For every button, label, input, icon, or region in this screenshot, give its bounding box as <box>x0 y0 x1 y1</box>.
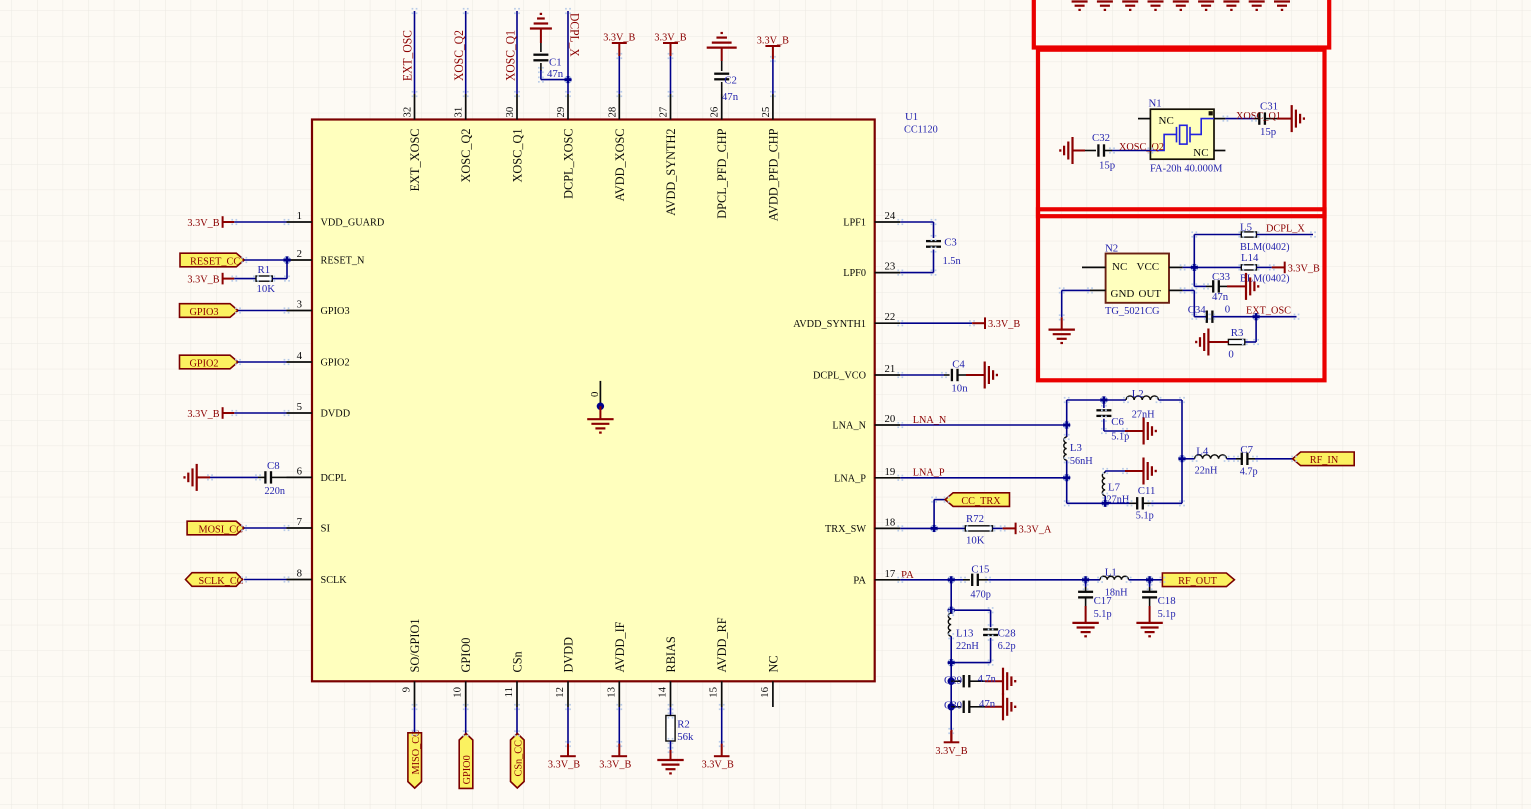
svg-text:AVDD_PFD_CHP: AVDD_PFD_CHP <box>766 128 780 221</box>
svg-text:3.3V_A: 3.3V_A <box>1019 523 1052 535</box>
pin 29 DCPL_XOSC <box>567 94 569 120</box>
svg-text:470p: 470p <box>970 588 991 600</box>
wire <box>1227 458 1236 460</box>
pin 31 XOSC_Q2 <box>465 94 467 120</box>
svg-text:15: 15 <box>708 687 720 698</box>
ground (C1) <box>530 14 552 29</box>
wire LNA_P <box>900 477 1066 479</box>
wire <box>1104 430 1125 432</box>
svg-text:3.3V_B: 3.3V_B <box>599 759 631 771</box>
svg-text:5.1p: 5.1p <box>1136 510 1154 522</box>
capacitor C29 <box>964 675 970 687</box>
wire <box>1149 606 1151 623</box>
port RESET_CC <box>180 253 244 267</box>
svg-text:30: 30 <box>504 107 516 118</box>
ground (C6) <box>1144 418 1156 445</box>
svg-text:GPIO0: GPIO0 <box>461 755 473 784</box>
port GPIO2 <box>180 355 239 369</box>
wire <box>951 609 990 611</box>
pin 3 GPIO3 <box>287 310 313 312</box>
svg-text:C7: C7 <box>1240 444 1253 456</box>
wire <box>1104 471 1106 473</box>
wire <box>985 706 1003 708</box>
svg-text:C33: C33 <box>1212 271 1230 283</box>
svg-text:GPIO2: GPIO2 <box>189 357 218 369</box>
svg-text:C8: C8 <box>267 460 280 472</box>
ground (R2) <box>657 760 683 773</box>
pin 6 DCPL <box>287 476 313 478</box>
wire <box>990 610 992 627</box>
pin stub NC bottom-right <box>1214 150 1225 152</box>
wire <box>670 741 672 750</box>
capacitor C1 <box>533 55 548 61</box>
wire <box>540 29 542 44</box>
wire <box>1125 430 1144 432</box>
svg-text:GPIO0: GPIO0 <box>459 638 473 673</box>
wire <box>1225 118 1254 120</box>
pin stub GND <box>1090 289 1106 291</box>
wire <box>1149 598 1151 606</box>
svg-text:25: 25 <box>760 107 772 118</box>
svg-text:DPCL_PFD_CHP: DPCL_PFD_CHP <box>715 128 729 218</box>
svg-text:3: 3 <box>297 299 302 311</box>
power 3.3V_B <box>714 744 730 757</box>
red highlight box 3 (TCXO N2 circuit) <box>1038 209 1325 380</box>
svg-text:DCPL_X: DCPL_X <box>567 13 581 57</box>
power 3.3V_B <box>223 216 235 228</box>
pin 14 RBIAS <box>670 681 672 707</box>
svg-text:TG_5021CG: TG_5021CG <box>1105 305 1160 317</box>
svg-text:BLM(0402): BLM(0402) <box>1240 241 1290 253</box>
wire <box>540 63 542 71</box>
svg-text:CSn_CC: CSn_CC <box>513 740 525 777</box>
capacitor C8 <box>265 471 271 483</box>
junction <box>948 678 955 685</box>
ground (top row) <box>1173 2 1189 10</box>
port MOSI_CC <box>187 521 244 535</box>
wire <box>951 706 961 708</box>
wire <box>567 707 569 744</box>
svg-text:XOSC_Q1: XOSC_Q1 <box>511 129 525 183</box>
svg-text:VDD_GUARD: VDD_GUARD <box>321 217 385 229</box>
power 3.3V_B <box>663 43 678 56</box>
svg-text:4.7p: 4.7p <box>1240 465 1258 477</box>
wire <box>1194 316 1207 318</box>
junction <box>1191 264 1198 271</box>
svg-text:L7: L7 <box>1108 481 1121 493</box>
svg-text:L4: L4 <box>1196 446 1209 458</box>
svg-text:RBIAS: RBIAS <box>664 636 678 672</box>
svg-text:6.2p: 6.2p <box>998 640 1016 652</box>
svg-text:RESET_CC: RESET_CC <box>190 256 240 268</box>
capacitor C18 <box>1142 592 1157 598</box>
capacitor C31 <box>1259 112 1265 124</box>
capacitor C11 <box>1137 497 1143 509</box>
svg-text:14: 14 <box>657 686 669 697</box>
svg-text:GPIO3: GPIO3 <box>321 305 350 317</box>
wire <box>1104 150 1112 152</box>
wire <box>1066 400 1068 437</box>
svg-text:24: 24 <box>885 210 896 222</box>
wire <box>1255 458 1294 460</box>
power 3.3V_B <box>223 407 235 419</box>
wire <box>197 476 210 478</box>
port MISO_CC <box>408 733 422 788</box>
wire <box>1125 470 1144 472</box>
junction <box>1178 455 1185 462</box>
svg-text:R2: R2 <box>677 718 690 730</box>
svg-text:SO/GPIO1: SO/GPIO1 <box>408 619 422 673</box>
svg-text:RF_OUT: RF_OUT <box>1178 575 1217 587</box>
wire <box>1061 317 1063 329</box>
capacitor C7 <box>1242 453 1248 465</box>
ground (L7) <box>1144 458 1156 485</box>
ground (C29) <box>1003 668 1015 695</box>
ground (N2) <box>1049 330 1075 343</box>
svg-text:C18: C18 <box>1158 595 1176 607</box>
crystal N1 body <box>1150 109 1214 159</box>
svg-text:R3: R3 <box>1231 327 1244 339</box>
capacitor C3 <box>926 241 941 247</box>
pin stub XOSC_Q1 <box>1214 118 1225 120</box>
svg-text:10n: 10n <box>951 382 968 394</box>
wire <box>1212 316 1296 318</box>
svg-text:LNA_P: LNA_P <box>834 472 866 484</box>
inductor L13 <box>948 613 951 636</box>
wire <box>286 260 288 279</box>
wire <box>670 56 672 94</box>
ground (C18) <box>1136 623 1162 636</box>
pin 10 GPIO0 <box>465 681 467 707</box>
wire <box>1151 502 1183 504</box>
svg-text:220n: 220n <box>265 485 286 497</box>
wire <box>258 476 266 478</box>
svg-text:11: 11 <box>503 687 515 697</box>
svg-text:21: 21 <box>885 363 896 375</box>
svg-text:4: 4 <box>297 350 303 362</box>
wire <box>1105 470 1125 472</box>
svg-text:XOSC_Q2: XOSC_Q2 <box>452 30 466 81</box>
svg-text:MISO_CC: MISO_CC <box>410 730 422 775</box>
inductor L1 <box>1100 576 1128 580</box>
wire <box>414 11 416 94</box>
wire <box>1129 579 1163 581</box>
svg-text:L13: L13 <box>956 627 973 639</box>
svg-text:3.3V_B: 3.3V_B <box>935 745 967 757</box>
wire <box>978 579 988 581</box>
wire <box>721 82 723 94</box>
svg-text:R72: R72 <box>966 513 984 525</box>
capacitor C32 <box>1098 144 1104 156</box>
svg-text:DVDD: DVDD <box>321 408 351 420</box>
wire <box>969 706 985 708</box>
power 3.3V_B <box>560 744 576 757</box>
svg-text:L14: L14 <box>1241 252 1259 264</box>
inductor L4 <box>1195 455 1227 459</box>
wire <box>1257 234 1314 236</box>
svg-text:6: 6 <box>297 465 303 477</box>
junction <box>1100 396 1107 403</box>
svg-text:47n: 47n <box>1212 291 1229 303</box>
svg-text:C17: C17 <box>1094 595 1113 607</box>
wire <box>1067 502 1130 504</box>
svg-text:RESET_N: RESET_N <box>321 255 365 267</box>
wire <box>993 527 1003 529</box>
wire <box>541 79 568 81</box>
svg-text:RF_IN: RF_IN <box>1310 454 1339 466</box>
svg-text:CC1120: CC1120 <box>904 124 938 136</box>
wire <box>1194 234 1241 236</box>
svg-text:1: 1 <box>297 210 302 222</box>
svg-text:5.1p: 5.1p <box>1158 608 1176 620</box>
wire <box>1085 580 1087 587</box>
wire <box>969 680 985 682</box>
port SCLK_CC <box>186 573 243 587</box>
wire <box>670 707 672 716</box>
junction <box>1063 421 1070 428</box>
svg-text:N1: N1 <box>1149 97 1162 109</box>
resistor R1 <box>256 276 272 281</box>
ground (top row) <box>1223 2 1239 10</box>
svg-text:17: 17 <box>885 568 896 580</box>
svg-text:22nH: 22nH <box>956 640 979 652</box>
pin 11 CSn <box>516 681 518 707</box>
wire <box>1227 285 1246 287</box>
svg-text:C4: C4 <box>952 358 965 370</box>
svg-text:3.3V_B: 3.3V_B <box>654 32 686 44</box>
svg-text:AVDD_XOSC: AVDD_XOSC <box>613 129 627 202</box>
wire <box>933 222 935 238</box>
port GPIO3 <box>180 304 239 318</box>
capacitor C30 <box>964 701 970 713</box>
svg-text:SI: SI <box>321 523 331 535</box>
svg-text:3.3V_B: 3.3V_B <box>1288 262 1320 274</box>
wire <box>1257 266 1272 268</box>
svg-text:47n: 47n <box>722 91 739 103</box>
svg-text:PA: PA <box>853 574 866 586</box>
wire <box>933 250 935 273</box>
svg-text:16: 16 <box>759 686 771 697</box>
pin 9 SO/GPIO1 <box>414 681 416 707</box>
wire <box>238 361 287 363</box>
pin stub NC top-left <box>1138 118 1150 120</box>
wire <box>210 476 258 478</box>
wire <box>1181 400 1183 503</box>
svg-text:LNA_P: LNA_P <box>913 467 945 479</box>
wire <box>990 638 992 663</box>
wire <box>1159 399 1183 401</box>
wire <box>934 499 947 501</box>
svg-text:DVDD: DVDD <box>562 637 576 673</box>
svg-text:L2: L2 <box>1132 388 1144 400</box>
pin 13 AVDD_IF <box>618 681 620 707</box>
svg-text:OUT: OUT <box>1139 288 1162 300</box>
wire <box>234 412 286 414</box>
pin 7 SI <box>287 527 313 529</box>
wire <box>1066 460 1068 503</box>
node 0 (IC internal ground pin) <box>599 381 601 404</box>
wire <box>966 374 985 376</box>
wire <box>772 59 774 94</box>
junction <box>564 76 571 83</box>
svg-text:AVDD_IF: AVDD_IF <box>613 621 627 672</box>
junction <box>1252 313 1259 320</box>
wire <box>465 707 467 733</box>
svg-text:R1: R1 <box>258 264 271 276</box>
power 3.3V_B <box>972 317 985 329</box>
junction <box>930 525 937 532</box>
wire <box>944 374 950 376</box>
svg-text:3.3V_B: 3.3V_B <box>702 759 734 771</box>
svg-text:47n: 47n <box>979 698 996 710</box>
pin 16 NC <box>772 681 774 707</box>
wire <box>1130 502 1138 504</box>
svg-text:N2: N2 <box>1105 243 1118 255</box>
svg-text:L3: L3 <box>1070 442 1082 454</box>
svg-text:12: 12 <box>554 687 566 698</box>
svg-text:C32: C32 <box>1092 132 1110 144</box>
pin 23 LPF0 <box>875 272 901 274</box>
wire <box>234 221 286 223</box>
svg-text:3.3V_B: 3.3V_B <box>548 759 580 771</box>
svg-text:29: 29 <box>555 107 567 118</box>
wire <box>1194 266 1241 268</box>
wire <box>1208 341 1228 343</box>
svg-text:GPIO3: GPIO3 <box>189 306 218 318</box>
inductor L3 <box>1064 437 1067 460</box>
svg-text:23: 23 <box>885 261 896 273</box>
power 3.3V_B <box>612 43 627 56</box>
svg-text:TRX_SW: TRX_SW <box>825 523 867 535</box>
svg-text:XOSC_Q2: XOSC_Q2 <box>459 129 473 183</box>
pin stub NC <box>1082 266 1106 268</box>
ground (top row) <box>1249 2 1265 10</box>
svg-text:3.3V_B: 3.3V_B <box>603 32 635 44</box>
svg-text:5.1p: 5.1p <box>1111 430 1129 442</box>
ground (top row) <box>1122 2 1138 10</box>
svg-text:AVDD_SYNTH1: AVDD_SYNTH1 <box>793 318 866 330</box>
svg-text:DCPL_VCO: DCPL_VCO <box>813 370 866 382</box>
junction <box>948 659 955 666</box>
svg-text:19: 19 <box>885 466 896 478</box>
svg-text:GND: GND <box>1111 288 1135 300</box>
svg-text:LNA_N: LNA_N <box>832 420 866 432</box>
wire <box>1112 150 1150 152</box>
svg-text:C15: C15 <box>971 563 989 575</box>
oscillator N2 body <box>1106 254 1169 303</box>
wire <box>1255 317 1257 342</box>
svg-text:EXT_XOSC: EXT_XOSC <box>408 129 422 192</box>
resistor R3 <box>1228 339 1244 344</box>
wire <box>951 680 961 682</box>
junction <box>948 576 955 583</box>
svg-text:10K: 10K <box>257 283 276 295</box>
wire <box>1265 118 1277 120</box>
svg-text:XOSC_Q2: XOSC_Q2 <box>1119 141 1164 153</box>
svg-text:C6: C6 <box>1111 416 1124 428</box>
svg-text:3.3V_B: 3.3V_B <box>187 217 219 229</box>
pin 1 marker <box>1209 111 1213 115</box>
pin 4 GPIO2 <box>287 361 313 363</box>
wire <box>988 579 1100 581</box>
svg-text:31: 31 <box>453 107 465 118</box>
ground (top row) <box>1198 2 1214 10</box>
wire <box>900 221 933 223</box>
pin 21 DCPL_VCO <box>875 374 901 376</box>
svg-text:NC: NC <box>766 655 780 672</box>
wire <box>1206 285 1213 287</box>
wire <box>950 636 952 662</box>
wire LNA_N <box>900 424 1066 426</box>
wire <box>1254 118 1260 120</box>
wire <box>1219 285 1227 287</box>
wire <box>1085 598 1087 606</box>
IC U1 CC1120 body <box>312 120 875 682</box>
svg-text:2: 2 <box>297 248 302 260</box>
svg-text:10: 10 <box>452 687 464 698</box>
svg-text:GPIO2: GPIO2 <box>321 357 350 369</box>
junction <box>948 703 955 710</box>
wire <box>618 707 620 744</box>
wire <box>1104 496 1106 504</box>
svg-text:3.3V_B: 3.3V_B <box>187 408 219 420</box>
wire <box>1062 289 1090 291</box>
wire <box>900 527 934 529</box>
capacitor C6 <box>1096 410 1111 416</box>
wire <box>1193 235 1195 287</box>
pin 15 AVDD_RF <box>721 681 723 707</box>
svg-text:5: 5 <box>297 401 302 413</box>
port GPIO0 <box>459 734 473 789</box>
ground (C2) <box>707 33 737 48</box>
wire <box>1182 458 1195 460</box>
wire <box>1193 290 1195 316</box>
ground (top row) <box>1072 2 1088 10</box>
svg-text:BLM(0402): BLM(0402) <box>1240 273 1290 285</box>
svg-text:CSn: CSn <box>511 651 525 672</box>
svg-text:EXT_OSC: EXT_OSC <box>1246 305 1291 317</box>
wire <box>1277 118 1292 120</box>
wire <box>414 707 416 733</box>
wire PA <box>900 579 963 581</box>
wire <box>934 527 965 529</box>
wire <box>618 56 620 94</box>
svg-text:C11: C11 <box>1138 485 1156 497</box>
ground (C30) <box>1003 693 1015 720</box>
wire <box>238 310 287 312</box>
ground (C33) <box>1246 273 1258 300</box>
svg-text:22nH: 22nH <box>1195 464 1218 476</box>
port RF_OUT <box>1162 573 1234 587</box>
wire <box>1194 285 1206 287</box>
wire <box>985 680 1003 682</box>
resistor R72 <box>965 526 992 531</box>
ground (C31) <box>1292 105 1304 132</box>
port CSn_CC <box>511 734 525 789</box>
capacitor C4 <box>952 369 958 381</box>
wire <box>1247 458 1255 460</box>
svg-text:3.3V_B: 3.3V_B <box>187 274 219 286</box>
svg-text:LNA_N: LNA_N <box>913 414 947 426</box>
svg-text:27: 27 <box>658 106 670 117</box>
wire <box>516 707 518 733</box>
svg-text:47n: 47n <box>547 68 564 80</box>
svg-text:NC: NC <box>1193 147 1208 159</box>
ground (top row) <box>1148 2 1164 10</box>
port CC_TRX <box>945 493 1009 507</box>
wire <box>1103 419 1105 431</box>
wire <box>1085 587 1087 592</box>
